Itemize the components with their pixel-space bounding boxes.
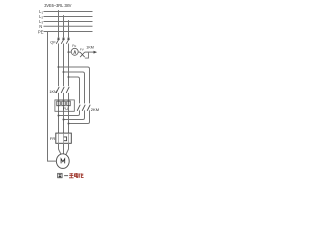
fuse Fu circle xyxy=(71,48,78,55)
wire phase C in FR box xyxy=(68,133,70,144)
svg-text:FU: FU xyxy=(63,106,68,111)
svg-text:3VE6–3RL 38V: 3VE6–3RL 38V xyxy=(44,3,71,8)
wire phase A QF to 1KM xyxy=(58,44,60,87)
wire PE bus xyxy=(44,31,93,33)
junction control tap xyxy=(68,51,70,53)
junction merge C xyxy=(68,123,70,125)
wire to control circuit xyxy=(85,51,94,53)
wire phase C drop to QF xyxy=(68,20,70,38)
switch cross symbol xyxy=(80,52,85,57)
motor M letter xyxy=(61,159,65,164)
wire phase A 1KM to FR box xyxy=(58,93,60,134)
junction crossover B xyxy=(63,71,65,73)
svg-text:FR: FR xyxy=(50,136,55,141)
wire L2 bus xyxy=(44,16,93,18)
wire phase B in FR box xyxy=(63,133,65,144)
fuse box FU enclosure xyxy=(55,100,74,111)
wire PE down to motor xyxy=(48,32,57,162)
junction crossover A xyxy=(58,66,60,68)
wire switch hook xyxy=(85,53,89,59)
breaker QF pole 3 xyxy=(66,38,69,44)
wire crossover B to 2KM pole2 xyxy=(64,72,85,103)
caption dash xyxy=(64,175,68,177)
contactor 1KM pole 1 xyxy=(56,87,59,93)
contactor 2KM pole 2 xyxy=(82,105,85,111)
wire motor lead U xyxy=(59,144,62,155)
wire motor lead V xyxy=(63,144,65,154)
fuse Fu element mark xyxy=(74,51,76,54)
caption figure char (drawn glyph) xyxy=(58,173,62,178)
wire 2KM pole3 merge xyxy=(69,110,90,123)
thermal relay FR box xyxy=(56,133,72,143)
junction merge A xyxy=(58,115,60,117)
caption red char 1 (drawn glyph) xyxy=(69,173,74,178)
svg-text:2KM: 2KM xyxy=(91,107,99,112)
contactor 2KM pole 3 xyxy=(87,105,90,111)
svg-text:1KM: 1KM xyxy=(49,90,57,94)
wire phase B drop to QF xyxy=(63,15,65,38)
contactor 1KM pole 2 xyxy=(61,87,64,93)
svg-text:Fu: Fu xyxy=(72,44,76,48)
wire L3 bus xyxy=(44,21,93,23)
thermal relay FR heater element xyxy=(63,137,66,141)
caption red char 2 (drawn glyph) xyxy=(75,173,79,177)
fuse FU2 element xyxy=(62,101,65,106)
wire crossover C to 2KM pole1 xyxy=(69,77,80,103)
svg-text:QF: QF xyxy=(50,39,56,44)
wire phase A in FR box xyxy=(58,133,60,144)
title label 3VE6-3RL 38V xyxy=(44,3,71,8)
arrow to control circuit xyxy=(94,51,98,54)
wire crossover A to 2KM pole3 xyxy=(59,67,90,103)
wire 2KM pole1 merge xyxy=(59,110,80,115)
svg-text:1KM: 1KM xyxy=(86,46,94,50)
breaker QF pole 2 xyxy=(61,38,64,44)
fuse FU3 element xyxy=(67,101,70,106)
wire phase B QF to 1KM xyxy=(63,44,65,87)
wire phase A drop to QF xyxy=(58,10,60,38)
wire 2KM pole2 merge xyxy=(64,110,85,119)
wire phase C 1KM to FR box xyxy=(68,93,70,134)
breaker QF pole 1 xyxy=(56,38,59,44)
wire phase C QF to 1KM xyxy=(68,44,70,87)
caption red char 3 (drawn glyph) xyxy=(79,173,84,177)
contactor 1KM pole 3 xyxy=(66,87,69,93)
wire N bus xyxy=(44,25,93,27)
fuse FU1 element xyxy=(57,101,60,106)
wire tap to fuse Fu xyxy=(69,51,72,53)
junction merge B xyxy=(63,119,65,121)
junction crossover C xyxy=(68,76,70,78)
contactor 2KM pole 1 xyxy=(77,105,80,111)
motor M circle xyxy=(56,154,69,169)
wire Fu to switch xyxy=(78,51,80,53)
wire motor lead W xyxy=(66,144,69,155)
svg-text:PE: PE xyxy=(38,30,44,35)
svg-text:FV: FV xyxy=(80,48,84,52)
svg-text:N: N xyxy=(39,24,42,29)
wire phase B 1KM to FR box xyxy=(63,93,65,134)
wire L1 bus xyxy=(44,11,93,13)
